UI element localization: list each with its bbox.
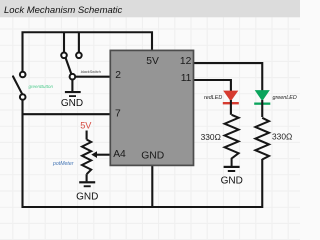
svg-text:GND: GND	[221, 176, 243, 187]
svg-text:GND: GND	[61, 98, 83, 109]
svg-text:330Ω: 330Ω	[201, 132, 221, 142]
svg-text:blackSwitch: blackSwitch	[81, 70, 101, 74]
svg-text:A4: A4	[113, 149, 126, 160]
svg-text:5V: 5V	[80, 120, 92, 130]
svg-text:11: 11	[181, 73, 192, 84]
svg-text:5V: 5V	[146, 56, 159, 67]
svg-text:7: 7	[115, 109, 121, 120]
svg-text:GND: GND	[76, 191, 98, 202]
svg-text:greenLED: greenLED	[273, 95, 297, 101]
svg-text:330Ω: 330Ω	[272, 132, 292, 142]
svg-text:Lock Mechanism Schematic: Lock Mechanism Schematic	[4, 5, 123, 16]
svg-text:redLED: redLED	[204, 95, 222, 101]
svg-text:12: 12	[180, 56, 192, 67]
svg-text:2: 2	[115, 70, 121, 81]
svg-text:GND: GND	[141, 151, 164, 162]
svg-text:greenButton: greenButton	[29, 84, 54, 89]
svg-text:potMeter: potMeter	[52, 161, 74, 167]
